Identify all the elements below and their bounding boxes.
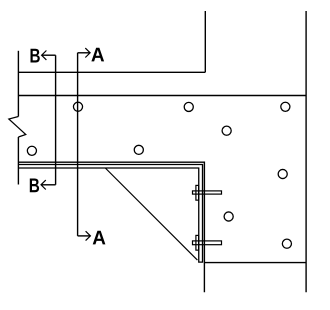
label A top [91, 48, 104, 62]
bolt hole circle row1 right [281, 102, 290, 111]
beam second flange line [18, 95, 306, 97]
bolt hole circle row3 middle [134, 145, 143, 154]
bolt hole circle row4 right [278, 169, 287, 178]
left edge vertical upper segment [17, 51, 19, 117]
section line B-B [41, 51, 56, 190]
bolt 1 shank rectangle [193, 191, 222, 194]
left edge vertical lower segment [17, 137, 19, 185]
upper member end vertical edge [204, 11, 206, 72]
bracket plate inner lines with bottom cap [18, 165, 202, 263]
beam top flange line [18, 71, 205, 73]
bolt hole circle row5 [224, 212, 233, 221]
bolt hole circle row6 right [282, 239, 291, 248]
label B top [31, 49, 40, 63]
bolt 2 head rectangle [196, 235, 199, 250]
bolt hole circle row1 middle [184, 102, 193, 111]
label A bottom [93, 231, 106, 245]
bolt hole circle row1 left on section A [73, 102, 82, 111]
bolt hole circle row3 left [27, 146, 36, 155]
label B bottom [30, 179, 39, 193]
diagonal stiffener line [105, 168, 197, 260]
column right face vertical [305, 11, 307, 292]
bolt 1 head rectangle [196, 185, 199, 200]
bolt hole circle row2 [222, 126, 231, 135]
bracket outer line with corner down to bottom [18, 162, 204, 292]
seat bottom horizontal line [204, 262, 306, 264]
break line zigzag [9, 117, 26, 138]
bolt 2 shank rectangle [193, 241, 222, 245]
section line A-A [78, 48, 91, 241]
